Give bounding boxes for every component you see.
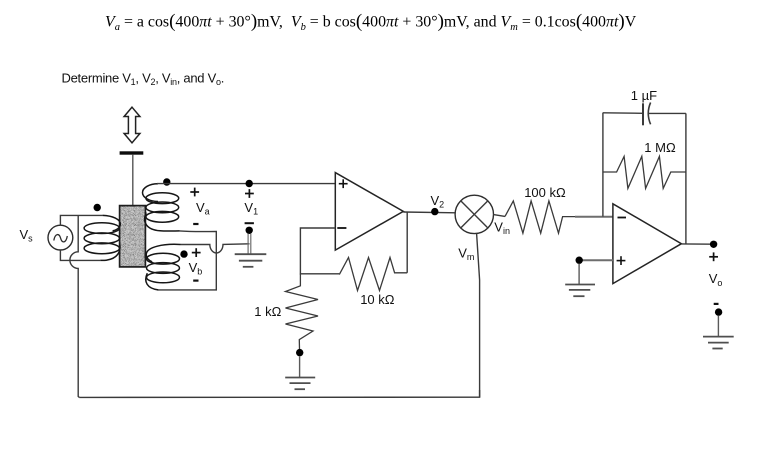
svg-text:V2: V2 [431,193,445,210]
ground G3 [565,285,595,297]
capacitor 1 uF [642,103,644,125]
op-amp U1 [335,173,403,251]
dot 1k bottom [296,349,303,356]
wire U1 output to feedback [406,212,408,273]
label Va plus [190,188,199,197]
svg-text:Determine V1, V2, Vin, and Vo.: Determine V1, V2, Vin, and Vo. [62,70,225,87]
wire Va minus down to Vb loop [158,231,217,290]
label V1 minus [245,222,254,224]
U2 minus input sign [618,217,627,219]
wire Vm from rail to multiplier [477,234,480,398]
wire U2 output [681,243,713,245]
wire Vs top [60,215,102,225]
ground G1 under V1 [235,254,267,267]
svg-text:1 µF: 1 µF [631,88,657,103]
sine mark [54,235,68,242]
Vo minus terminal dot [715,308,722,315]
stem to ground G2 [299,356,301,377]
dot Va [163,178,170,185]
V1 minus terminal dot [246,227,253,234]
wire multiplier output [494,215,506,217]
stem to ground G3 [578,264,580,284]
label Vo minus [714,303,719,305]
primary coil [84,215,120,260]
wire U1 output [403,211,456,214]
wire Vs bottom [60,250,100,261]
resistor 100 kOhm [505,201,575,233]
V1 minus double stem [247,234,249,255]
ground G2 under 1k [285,378,315,390]
svg-text:Va: Va [196,200,210,217]
wire Vb plus with hop to V1 ground stem [181,244,250,253]
op-amp U2 [613,204,682,284]
svg-text:Vm: Vm [458,246,474,263]
dot primary [94,204,101,211]
bottom rail [79,390,479,397]
resistor 1 kOhm [286,274,319,349]
svg-text:Vo: Vo [709,271,723,288]
U1 plus input sign [339,179,348,188]
resistor 10 kOhm [339,258,407,291]
wire Va top to op-amp (node V1 on it) [157,183,335,185]
feedback right vertical [685,113,687,244]
U2 plus input sign [617,256,626,265]
node V1 dot [246,180,253,187]
U1 minus input sign [337,227,346,229]
svg-text:Vin: Vin [494,220,510,237]
node V2 dot [431,208,438,215]
svg-text:100 kΩ: 100 kΩ [524,185,566,200]
multiplier [455,195,493,233]
wire to U2 minus input [575,216,613,218]
svg-text:V1: V1 [244,200,258,217]
label Vb plus [192,248,201,257]
dot Vb [180,250,187,257]
svg-text:1 kΩ: 1 kΩ [254,304,281,319]
label Vo plus [709,252,718,261]
ground G4 [703,337,734,349]
svg-text:10 kΩ: 10 kΩ [360,292,395,307]
svg-text:Vs: Vs [20,227,34,244]
source Vs [48,225,73,250]
node dot output [710,241,717,248]
svg-text:Va = a cos(400πt + 30°)mV, Vb: Va = a cos(400πt + 30°)mV, Vb = b cos(40… [105,11,637,33]
transformer core [120,206,146,267]
tuning arrow (movable core indicator) [124,107,140,143]
resistor 1 MOhm [603,156,686,188]
wire U2 plus input [581,259,613,261]
stem to ground G4 [717,316,719,337]
feedback top wire right [648,112,686,114]
wire tap vertical with hop to bottom rail [70,215,79,397]
slug stem [132,155,134,206]
slug top bar [120,151,144,154]
label V1 plus [245,189,254,198]
node dot U2 plus [576,257,583,264]
feedback top wire left [603,112,643,115]
wire U1 minus input [300,228,339,274]
secondary coil Va [142,184,179,231]
feedback left vertical [602,113,604,217]
secondary coil Vb [146,244,181,290]
svg-text:Vb: Vb [189,260,203,277]
label Vb minus [193,280,198,282]
svg-text:1 MΩ: 1 MΩ [644,140,676,155]
label Va minus [193,223,198,225]
